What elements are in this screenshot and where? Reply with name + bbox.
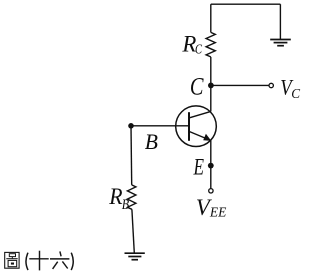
wire: Q1 emitter down to node E (210, 141, 212, 166)
wire: node B down to R_B (130, 126, 133, 185)
node C (junction dot) (208, 83, 214, 89)
svg-text:E: E (193, 155, 204, 180)
transistor Q1 emitter line (189, 131, 211, 140)
node B (junction dot) (128, 123, 134, 129)
terminal V_C (open circle) (269, 83, 273, 87)
wire: node C to collector (210, 85, 212, 111)
svg-text:EE: EE (209, 206, 227, 221)
caption glyph 六 (50, 251, 69, 269)
wire: node C to V_C terminal (211, 84, 269, 86)
wire: R_C top lead (210, 4, 212, 32)
svg-text:R: R (108, 184, 122, 209)
wire: base from node B to Q1 (131, 125, 188, 127)
svg-text:C: C (291, 87, 300, 102)
resistor R_B (127, 185, 135, 209)
caption glyph 圖 (5, 252, 19, 268)
svg-text:B: B (122, 197, 129, 213)
svg-text:C: C (190, 73, 204, 100)
caption 圖(十六) drawn as strokes (5, 251, 74, 271)
caption glyph ) (71, 253, 73, 270)
caption glyph 十 (29, 251, 48, 271)
svg-text:C: C (195, 43, 202, 58)
transistor Q1 base bar (188, 112, 190, 141)
wire: drop to top-right ground (279, 4, 281, 39)
wire: R_B to bottom ground (132, 209, 134, 253)
caption glyph ( (26, 253, 28, 270)
wire: node E to V_EE terminal (210, 166, 212, 189)
transistor Q1 (NPN) : body circle (176, 106, 217, 147)
node E (junction dot) (208, 163, 214, 169)
wire: R_C bottom lead to node C (210, 57, 212, 86)
wire: top rail from R_C top to top-right ground (211, 3, 281, 5)
ground (bottom) (125, 253, 145, 260)
svg-text:B: B (145, 129, 158, 154)
ground (top right) (270, 40, 291, 46)
transistor Q1 collector line (189, 111, 211, 118)
resistor R_C (206, 32, 215, 57)
transistor Q1 emitter arrowhead (203, 134, 211, 141)
terminal V_EE (open circle) (209, 189, 213, 193)
